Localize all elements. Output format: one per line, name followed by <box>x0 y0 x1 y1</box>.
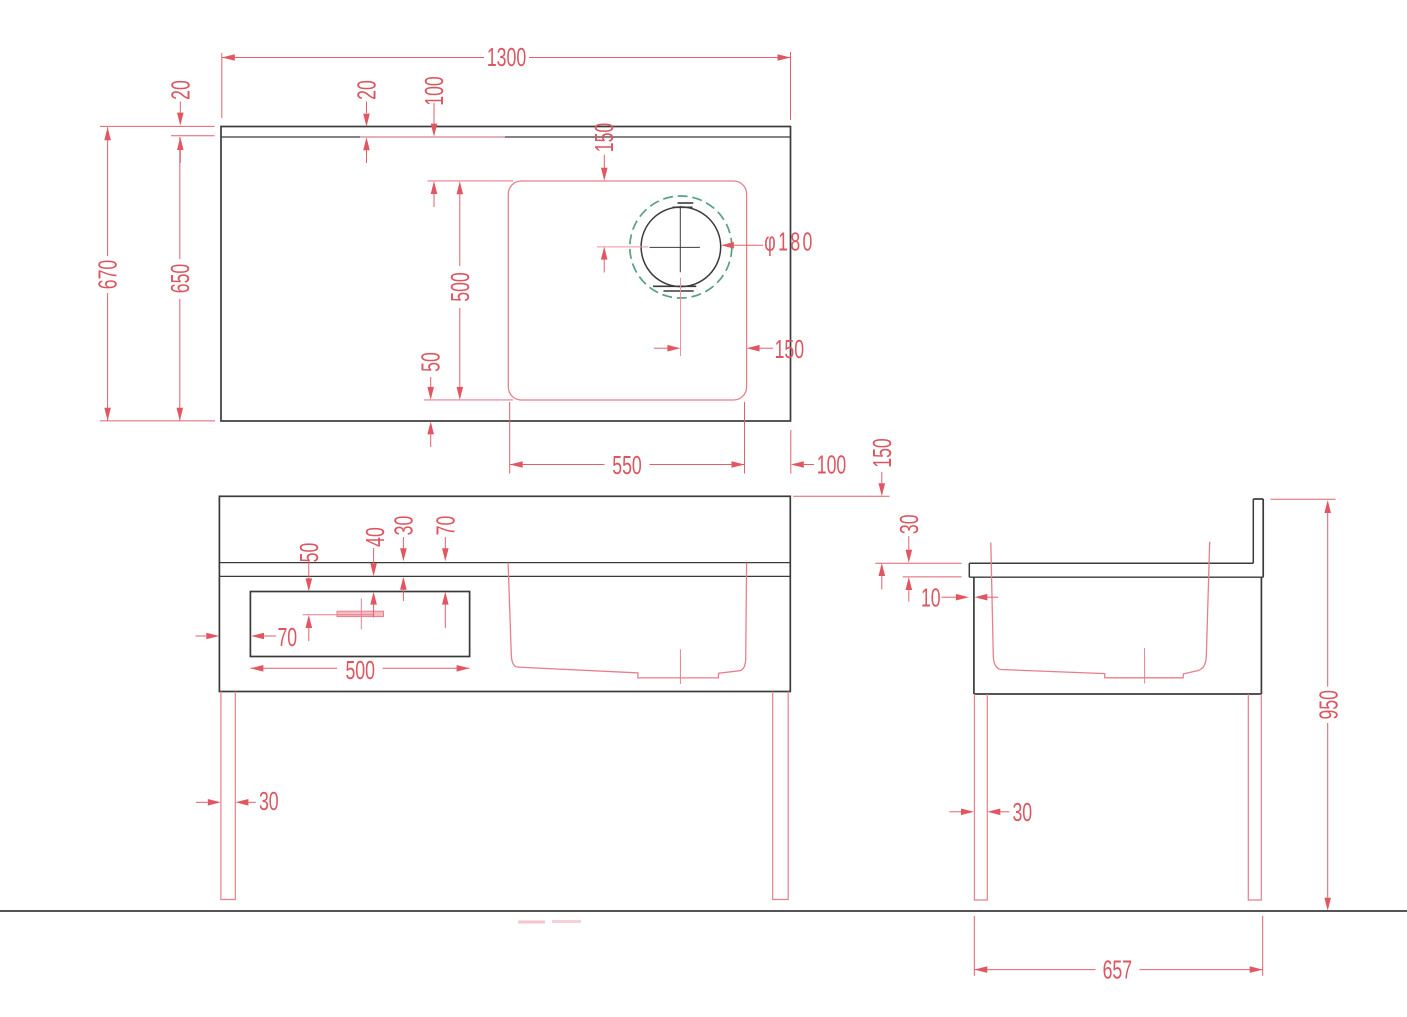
front view cabinet outline <box>219 496 790 691</box>
drain centerline (front view) <box>679 649 681 684</box>
tick marks above drain <box>673 203 694 207</box>
drain crosshair horizontal <box>650 246 700 248</box>
svg-text:30: 30 <box>259 787 279 816</box>
svg-text:50: 50 <box>295 543 324 563</box>
dimension 30 front label <box>389 516 418 536</box>
svg-text:1300: 1300 <box>487 43 526 72</box>
svg-text:φ180: φ180 <box>764 227 814 256</box>
dimension 550 label <box>612 451 641 480</box>
ground line <box>0 910 1407 912</box>
dimension 657 label <box>1103 955 1132 984</box>
dimension 20 left arrows <box>177 102 184 164</box>
dimension 650 line <box>177 137 184 421</box>
dimension 30 front arrows <box>400 537 407 601</box>
svg-text:950: 950 <box>1314 690 1343 719</box>
dimension 70 drawer label <box>277 623 297 652</box>
front counter band bottom line <box>219 575 790 577</box>
svg-text:670: 670 <box>93 260 122 289</box>
dimension 30 slab arrows <box>906 536 913 601</box>
dimension 30 front-leg arrows <box>196 799 256 806</box>
dimension 100 label <box>420 76 449 105</box>
dimension 50 top-view arrows <box>427 377 434 447</box>
sink profile (front view) <box>508 563 746 678</box>
dimension 30 side-leg arrows <box>950 809 1010 816</box>
svg-text:50: 50 <box>416 352 445 372</box>
svg-text:10: 10 <box>921 583 941 612</box>
dimension 1300 label <box>487 43 526 72</box>
dimension 950 line <box>1324 500 1331 911</box>
faint pink mark below ground <box>518 920 581 924</box>
green dashed reference circle <box>630 196 732 298</box>
svg-text:20: 20 <box>166 80 195 100</box>
svg-text:500: 500 <box>345 656 374 685</box>
dimension 20 middle label <box>352 80 381 100</box>
slab top extension line <box>875 562 961 564</box>
svg-text:150: 150 <box>775 335 804 364</box>
pink centerline left of drain <box>597 246 649 248</box>
phi180 label <box>764 227 814 256</box>
sink bottom extension line <box>424 399 513 401</box>
svg-text:70: 70 <box>431 516 460 536</box>
top view counter outline <box>221 127 791 422</box>
dimension 100 right arrow <box>791 461 814 468</box>
dimension 150 top arrows <box>601 155 608 273</box>
dimension 50 front label <box>295 543 324 563</box>
dimension 670 line <box>104 127 111 421</box>
dimension 500 drawer label <box>345 656 374 685</box>
dimension 950 label <box>1314 690 1343 719</box>
sink top extension line <box>428 180 514 182</box>
svg-text:30: 30 <box>1012 798 1032 827</box>
svg-text:150: 150 <box>590 123 619 152</box>
dimension 30 slab label <box>895 514 924 534</box>
sink opening rounded rectangle (plan) <box>508 181 746 400</box>
svg-text:100: 100 <box>420 76 449 105</box>
dimension 1300 extension lines <box>222 52 791 120</box>
svg-text:20: 20 <box>352 80 381 100</box>
backsplash <box>1253 499 1263 577</box>
svg-text:70: 70 <box>277 623 297 652</box>
front right leg <box>773 692 789 900</box>
dimension 150 horizontal label <box>775 335 804 364</box>
pink extension overlay on inner line <box>360 136 505 138</box>
side right leg <box>1248 694 1261 900</box>
extension line inner edge left <box>171 135 215 137</box>
svg-text:40: 40 <box>361 527 390 547</box>
drain crosshair vertical <box>679 206 681 272</box>
slab bottom extension line <box>903 576 962 578</box>
dimension 650 label <box>165 264 194 293</box>
pink centerline below drain <box>680 278 682 356</box>
dimension 150 backsplash label <box>868 438 897 467</box>
dimension 550 line <box>510 461 745 468</box>
phi180 leader arrow <box>721 242 763 249</box>
svg-text:500: 500 <box>445 272 474 301</box>
svg-text:100: 100 <box>817 450 846 479</box>
dimension 1300 line and arrows <box>222 54 791 61</box>
dimension 50 top-view label <box>416 352 445 372</box>
dimension 70 band arrows <box>442 537 449 628</box>
top view counter back-edge inner line <box>221 136 791 138</box>
front left leg <box>221 692 235 900</box>
dimension 100 right extension line <box>790 430 792 474</box>
dimension 70 band label <box>431 516 460 536</box>
drawer opening rectangle <box>250 592 469 657</box>
dimension 40 front label <box>361 527 390 547</box>
dimension 657 extension lines <box>974 916 1262 976</box>
handle crosshair <box>303 598 374 629</box>
dimension 10 label <box>921 583 941 612</box>
drain hole circle <box>641 207 721 287</box>
dimension 150 top label <box>590 123 619 152</box>
dimension 150 horizontal arrows <box>654 345 773 352</box>
drain centerline (side view) <box>1144 648 1146 684</box>
side cabinet body <box>974 577 1262 694</box>
svg-text:150: 150 <box>868 438 897 467</box>
dimension 500 label <box>445 272 474 301</box>
svg-text:657: 657 <box>1103 955 1132 984</box>
dimension 10 arrows <box>942 594 999 601</box>
svg-text:30: 30 <box>389 516 418 536</box>
dimension 30 side-leg label <box>1012 798 1032 827</box>
dimension 30 front-leg label <box>259 787 279 816</box>
extension line top edge left <box>100 125 215 127</box>
dimension 100 right label <box>817 450 846 479</box>
side left leg <box>974 694 987 900</box>
dimension 150 backsplash arrows <box>879 472 886 590</box>
dimension 20 left label <box>166 80 195 100</box>
svg-text:550: 550 <box>612 451 641 480</box>
dimension 670 label <box>93 260 122 289</box>
front-view top extension line <box>793 495 890 497</box>
dimension 70 drawer arrows <box>196 633 277 640</box>
dimension 20 middle arrows <box>363 102 370 164</box>
dimension 100 arrows <box>431 103 438 207</box>
dimension 500 drawer line <box>250 665 469 672</box>
front counter band top line <box>219 562 790 564</box>
svg-text:650: 650 <box>165 264 194 293</box>
dimension 550 extension lines <box>510 402 745 474</box>
dimension 657 line <box>974 966 1262 973</box>
side counter slab <box>969 563 1263 577</box>
sink profile (side view) <box>991 542 1210 678</box>
svg-text:30: 30 <box>895 514 924 534</box>
tick marks below drain <box>653 286 696 291</box>
dimension 950 extension line <box>1271 498 1336 500</box>
dimension 40 front arrows <box>370 548 377 618</box>
extension line bottom edge left <box>100 420 215 422</box>
dimension 50 front arrows <box>306 561 313 641</box>
drawer handle bar <box>337 611 384 616</box>
dimension 500 line <box>457 181 464 400</box>
